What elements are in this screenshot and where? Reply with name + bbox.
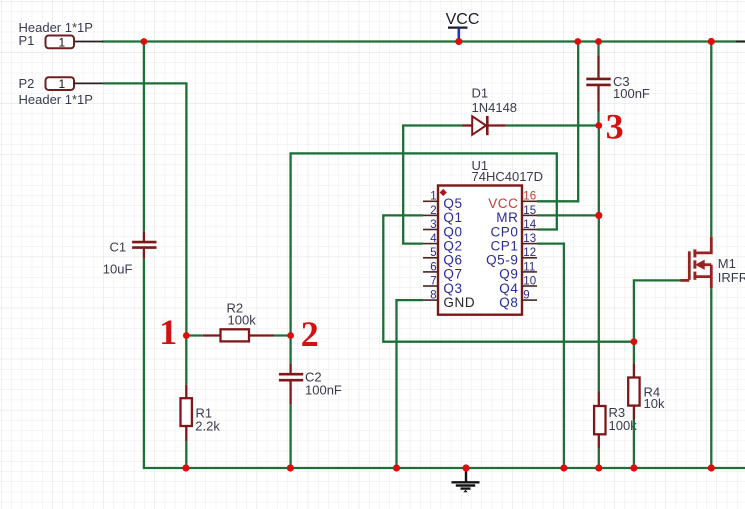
svg-text:GND: GND xyxy=(443,295,475,310)
U1 pin 5 xyxy=(423,247,463,267)
junction M1 source on ground rail xyxy=(708,464,715,471)
resistor R3 xyxy=(594,392,637,449)
wire node2 to CP0 pin14 xyxy=(291,153,557,335)
junction U1 GND on ground rail xyxy=(393,464,400,471)
svg-text:12: 12 xyxy=(523,247,536,259)
svg-text:11: 11 xyxy=(523,261,535,273)
resistor R4 xyxy=(628,342,665,420)
ground symbol xyxy=(452,468,480,492)
svg-text:100nF: 100nF xyxy=(305,383,342,398)
svg-text:Q9: Q9 xyxy=(499,267,518,282)
U1 pin 12 xyxy=(486,247,537,267)
wire gate node up to M1 gate xyxy=(634,280,681,341)
wire node1 down to R1 xyxy=(185,336,187,385)
svg-text:10uF: 10uF xyxy=(103,261,133,276)
svg-text:13: 13 xyxy=(523,233,536,245)
svg-text:16: 16 xyxy=(523,191,536,203)
junction node 3 (D1 cathode / C3 / MR) xyxy=(595,122,602,129)
wire R2 to node 2 xyxy=(274,334,290,336)
svg-text:1: 1 xyxy=(430,191,436,203)
wire node3 down to R3 (MR net) xyxy=(598,126,600,392)
svg-text:10k: 10k xyxy=(644,396,665,411)
svg-text:VCC: VCC xyxy=(488,196,518,211)
U1 pin 7 xyxy=(423,275,463,295)
wire P2 to node 1 xyxy=(103,83,186,335)
wire node1 to R2 xyxy=(186,334,202,336)
junction C3 top on rail xyxy=(595,38,602,45)
svg-text:1: 1 xyxy=(59,35,66,49)
U1 pin 14 xyxy=(490,219,537,239)
U1 pin 13 xyxy=(490,233,537,253)
svg-text:Q8: Q8 xyxy=(499,295,518,310)
svg-text:Q1: Q1 xyxy=(443,210,462,225)
wire node2 down to C2 xyxy=(289,336,291,364)
U1 pin 6 xyxy=(423,261,463,281)
wire GND pin8 to ground rail xyxy=(397,300,424,468)
svg-text:100k: 100k xyxy=(228,312,257,327)
svg-text:2: 2 xyxy=(301,314,319,354)
svg-text:Header 1*1P: Header 1*1P xyxy=(19,92,93,107)
svg-text:P2: P2 xyxy=(19,76,35,91)
svg-text:7: 7 xyxy=(430,275,436,287)
svg-text:Q5-9: Q5-9 xyxy=(486,253,518,268)
wire C2 to ground rail xyxy=(289,405,291,468)
svg-text:CP0: CP0 xyxy=(490,224,518,239)
power VCC symbol xyxy=(446,11,480,41)
svg-text:74HC4017D: 74HC4017D xyxy=(472,169,544,184)
IC U1 74HC4017D xyxy=(438,158,543,315)
wire R3 to ground rail xyxy=(598,449,600,468)
svg-text:9: 9 xyxy=(523,290,529,302)
svg-text:Q0: Q0 xyxy=(443,224,462,239)
connector P1 xyxy=(19,20,93,50)
wire C1 bottom to ground rail xyxy=(144,259,745,468)
junction P1/C1 to VCC rail xyxy=(141,38,148,45)
U1 pin 1 xyxy=(423,191,463,211)
junction ground symbol on rail xyxy=(462,464,469,471)
svg-text:VCC: VCC xyxy=(446,11,480,28)
svg-text:6: 6 xyxy=(430,261,436,273)
junction CP1 on ground rail xyxy=(560,464,567,471)
junction MR pin15 on node3 riser xyxy=(595,212,602,219)
junction C2 on ground rail xyxy=(287,464,294,471)
svg-text:Q4: Q4 xyxy=(499,281,518,296)
junction VCC symbol on rail xyxy=(455,38,462,45)
svg-text:Q3: Q3 xyxy=(443,281,462,296)
capacitor C2 xyxy=(279,364,342,405)
svg-text:CP1: CP1 xyxy=(490,238,518,253)
svg-text:100nF: 100nF xyxy=(613,86,650,101)
wire Q2 pin4 to diode anode xyxy=(403,126,462,244)
svg-text:10: 10 xyxy=(523,275,536,287)
wire M1 drain from VCC rail xyxy=(710,42,712,237)
junction gate node (Q1 / R4 / M1 gate) xyxy=(631,338,638,345)
svg-text:1: 1 xyxy=(59,77,66,91)
node 2 label xyxy=(301,314,319,354)
wire VCC pin16 xyxy=(537,42,578,201)
capacitor C3 xyxy=(586,55,650,112)
wire C1 top drop xyxy=(143,42,145,231)
wire MR pin15 to node3 vertical xyxy=(537,214,599,216)
svg-text:M1: M1 xyxy=(718,256,736,271)
svg-text:8: 8 xyxy=(430,290,436,302)
junction R3 on ground rail xyxy=(595,464,602,471)
svg-text:2.2k: 2.2k xyxy=(195,418,220,433)
svg-text:P1: P1 xyxy=(19,33,35,48)
U1 pin 9 xyxy=(499,290,537,310)
U1 pin 11 xyxy=(499,261,537,281)
U1 pin 2 xyxy=(423,205,463,225)
svg-text:C1: C1 xyxy=(110,239,127,254)
svg-text:Q2: Q2 xyxy=(443,238,462,253)
svg-text:5: 5 xyxy=(430,247,436,259)
svg-text:MR: MR xyxy=(496,210,518,225)
junction pin16 riser on rail xyxy=(574,38,581,45)
svg-text:1N4148: 1N4148 xyxy=(472,100,518,115)
svg-text:D1: D1 xyxy=(472,85,489,100)
node 3 label xyxy=(606,107,624,147)
U1 pin 4 xyxy=(423,233,463,253)
wire R4 to ground rail xyxy=(633,420,635,469)
svg-text:3: 3 xyxy=(430,219,436,231)
junction R1 on ground rail xyxy=(182,464,189,471)
wire P1 pin stub xyxy=(74,41,103,43)
svg-text:4: 4 xyxy=(430,233,437,245)
wire top-right dark stub xyxy=(736,41,745,43)
capacitor C1 xyxy=(103,231,157,276)
svg-text:2: 2 xyxy=(430,205,436,217)
resistor R2 xyxy=(203,300,274,341)
U1 pin 3 xyxy=(423,219,463,239)
svg-text:Q6: Q6 xyxy=(443,253,462,268)
wire diode cathode to node 3 xyxy=(505,124,599,126)
svg-text:IRFR120N: IRFR120N xyxy=(718,270,745,285)
wire VCC top rail xyxy=(102,40,745,42)
wire M1 source to ground rail xyxy=(710,288,712,468)
junction R4 on ground rail xyxy=(630,464,637,471)
resistor R1 xyxy=(181,385,221,442)
svg-text:15: 15 xyxy=(523,205,536,217)
junction M1 drain on rail xyxy=(708,38,715,45)
wire P2 pin stub xyxy=(74,82,103,84)
wire C3 top xyxy=(597,42,599,55)
svg-text:Q7: Q7 xyxy=(443,267,462,282)
junction node 2 (R2 / C2 / CP0) xyxy=(287,332,294,339)
connector P2 xyxy=(19,76,93,107)
svg-text:1: 1 xyxy=(159,312,177,352)
wire R1 to ground rail xyxy=(185,441,187,468)
U1 pin 8 xyxy=(423,290,475,310)
wire CP1 pin13 down to ground rail xyxy=(537,244,564,468)
svg-text:Q5: Q5 xyxy=(443,196,462,211)
wire C3 bottom to node 3 xyxy=(597,112,599,126)
U1 pin 15 xyxy=(496,205,537,225)
junction node 1 (P2 / R2 / R1) xyxy=(183,332,190,339)
diode D1 xyxy=(463,85,518,135)
svg-text:3: 3 xyxy=(606,107,624,147)
svg-text:14: 14 xyxy=(523,219,536,231)
U1 pin 16 xyxy=(488,191,537,211)
node 1 label xyxy=(159,312,177,352)
U1 pin 10 xyxy=(499,275,537,295)
transistor M1 xyxy=(681,237,745,288)
wire Q1 pin2 to gate node xyxy=(383,215,634,341)
